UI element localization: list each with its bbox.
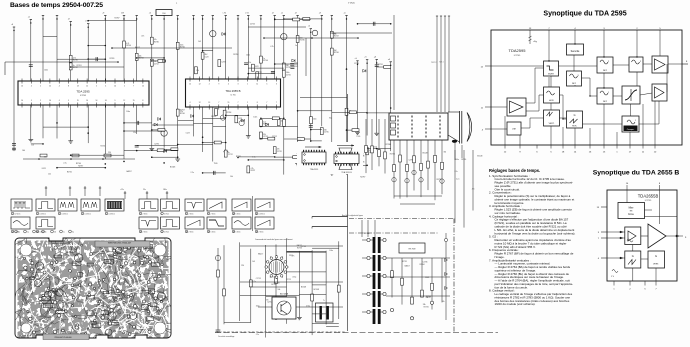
svg-text:14: 14 (95, 100, 97, 102)
svg-text:forme: forme (628, 213, 635, 216)
svg-text:0.5 V/cm: 0.5 V/cm (259, 214, 266, 216)
svg-text:Régler R 2767 (BF) de façon à: Régler R 2767 (BF) de façon à obtenir un… (495, 252, 574, 256)
svg-text:R2731: R2731 (236, 156, 241, 158)
svg-text:5 V/cm: 5 V/cm (164, 214, 170, 216)
svg-text:0.5 V/cm: 0.5 V/cm (85, 214, 92, 216)
svg-text:Réglages bases de temps.: Réglages bases de temps. (489, 168, 540, 173)
svg-text:5: 5 (266, 84, 267, 86)
svg-text:7: 7 (133, 86, 134, 88)
svg-text:2 V/cm: 2 V/cm (143, 232, 149, 234)
svg-text:13: 13 (77, 86, 79, 88)
svg-text:100n: 100n (180, 44, 184, 46)
svg-text:TDA 2595: TDA 2595 (76, 90, 90, 94)
svg-text:VERT.: VERT. (549, 123, 555, 125)
svg-text:8k2: 8k2 (334, 50, 337, 52)
svg-text:TM 53k: TM 53k (363, 233, 369, 235)
svg-text:Synoptique du TDA 2655 B: Synoptique du TDA 2655 B (593, 170, 680, 177)
svg-text:560: 560 (22, 150, 25, 152)
svg-text:VERT.: VERT. (653, 264, 659, 266)
svg-text:C2755: C2755 (354, 63, 359, 65)
svg-text:12k: 12k (133, 132, 136, 134)
svg-text:TDA2595: TDA2595 (509, 48, 527, 53)
svg-text:100n: 100n (246, 55, 250, 57)
svg-text:33k: 33k (263, 134, 266, 136)
svg-text:IC2755: IC2755 (645, 200, 652, 202)
svg-text:2.2u: 2.2u (63, 163, 66, 165)
svg-text:R2736: R2736 (154, 41, 159, 43)
svg-text:0.5 V/cm: 0.5 V/cm (109, 214, 116, 216)
svg-text:100n: 100n (256, 305, 260, 307)
svg-text:0.5 V/cm: 0.5 V/cm (40, 214, 47, 216)
svg-text:TDA2655B: TDA2655B (638, 194, 659, 199)
svg-text:BA157: BA157 (258, 253, 263, 256)
svg-text:1n: 1n (295, 45, 297, 47)
svg-text:L 94: L 94 (223, 13, 226, 15)
svg-text:DET.: DET. (603, 101, 608, 103)
svg-text:HOR.: HOR. (549, 100, 554, 102)
svg-text:C2755: C2755 (221, 62, 226, 64)
svg-text:17: 17 (208, 231, 210, 233)
svg-text:2 V/cm: 2 V/cm (164, 232, 170, 234)
svg-text:100n: 100n (44, 70, 48, 72)
svg-text:10k: 10k (139, 55, 142, 57)
svg-text:D521: D521 (425, 277, 429, 279)
svg-text:8k2: 8k2 (205, 54, 208, 56)
svg-text:15: 15 (142, 86, 144, 88)
svg-text:C2731: C2731 (154, 144, 159, 146)
svg-text:V 29(4): V 29(4) (348, 3, 355, 5)
svg-text:horizontal de l’image vers la: horizontal de l’image vers la droite ou … (495, 231, 576, 235)
svg-text:5 V/cm: 5 V/cm (236, 232, 242, 234)
svg-text:12k: 12k (196, 70, 199, 72)
svg-text:2.2u: 2.2u (456, 178, 459, 180)
svg-text:2 V/cm: 2 V/cm (189, 214, 195, 216)
svg-text:15: 15 (161, 231, 163, 233)
svg-text:L523: L523 (186, 133, 190, 135)
svg-text:1k5: 1k5 (198, 41, 201, 43)
svg-text:560: 560 (286, 65, 289, 67)
svg-text:4: 4 (31, 86, 32, 88)
svg-text:7: 7 (266, 102, 267, 104)
svg-text:C2731: C2731 (286, 74, 291, 76)
svg-text:4: 4 (228, 84, 229, 86)
svg-text:5 V/cm: 5 V/cm (211, 232, 217, 234)
svg-text:7: 7 (276, 102, 277, 104)
svg-text:470p: 470p (292, 277, 296, 279)
svg-text:T520: T520 (356, 136, 360, 138)
svg-text:C2755: C2755 (263, 136, 268, 138)
svg-text:1: 1 (247, 84, 248, 86)
svg-text:100n: 100n (253, 116, 257, 118)
svg-text:8: 8 (68, 86, 69, 88)
svg-text:TDA 2595: TDA 2595 (310, 168, 318, 171)
svg-text:Commande du transfo de lignes: Commande du transfo de lignes avec son f… (255, 238, 293, 241)
svg-text:R2731: R2731 (67, 172, 72, 174)
svg-text:C2755: C2755 (324, 132, 329, 134)
svg-text:5: 5 (31, 100, 32, 102)
svg-text:IC2705: IC2705 (514, 55, 521, 57)
svg-text:8: 8 (142, 100, 143, 102)
svg-text:R2767: R2767 (180, 110, 185, 112)
svg-text:100n: 100n (329, 250, 333, 252)
svg-text:4: 4 (105, 86, 106, 88)
svg-text:1n: 1n (73, 65, 75, 67)
svg-text:4: 4 (190, 102, 191, 104)
svg-text:100n: 100n (455, 159, 459, 161)
svg-text:R2766: R2766 (386, 144, 391, 146)
svg-text:DET.: DET. (572, 83, 577, 85)
svg-text:220: 220 (241, 265, 244, 267)
svg-text:4: 4 (59, 100, 60, 102)
svg-text:BC548: BC548 (314, 289, 319, 291)
svg-text:15: 15 (133, 100, 135, 102)
svg-text:Compar.: Compar. (627, 129, 635, 131)
svg-text:14: 14 (114, 86, 116, 88)
svg-text:R2731: R2731 (378, 64, 383, 66)
svg-text:2: 2 (209, 84, 210, 86)
svg-text:LSE: LSE (512, 129, 516, 131)
svg-text:47n: 47n (141, 35, 144, 37)
svg-text:10: 10 (233, 213, 235, 215)
svg-text:R2747: R2747 (334, 35, 339, 37)
svg-text:R2747: R2747 (251, 170, 256, 172)
svg-text:D521: D521 (42, 168, 46, 170)
svg-text:1k5: 1k5 (252, 261, 255, 263)
svg-text:8k2: 8k2 (329, 118, 332, 120)
svg-text:2.2u: 2.2u (248, 62, 251, 64)
svg-text:29504-007.25-06-660: 29504-007.25-06-660 (54, 337, 71, 339)
svg-text:Circuit de verrouillage: Circuit de verrouillage (218, 335, 234, 338)
svg-text:47n: 47n (266, 299, 269, 301)
svg-text:0.1u: 0.1u (252, 157, 255, 159)
svg-text:11: 11 (256, 213, 258, 215)
svg-text:R521: R521 (289, 255, 293, 257)
svg-text:D50: D50 (162, 13, 165, 15)
svg-text:2.2u: 2.2u (253, 281, 256, 283)
svg-text:18: 18 (233, 231, 235, 233)
svg-text:L523: L523 (373, 147, 377, 149)
svg-text:1n: 1n (263, 58, 265, 60)
svg-text:4: 4 (59, 86, 60, 88)
svg-text:2: 2 (40, 86, 41, 88)
svg-text:Mise: Mise (629, 208, 635, 210)
svg-text:13: 13 (208, 102, 210, 104)
svg-text:11: 11 (256, 84, 258, 86)
svg-text:10k: 10k (442, 301, 445, 303)
svg-text:33k: 33k (154, 61, 157, 63)
svg-text:L523: L523 (238, 118, 242, 120)
svg-text:R2767: R2767 (115, 17, 120, 19)
svg-text:1a: 1a (27, 232, 29, 234)
svg-text:R2701: R2701 (77, 65, 82, 67)
svg-text:R2747: R2747 (73, 67, 78, 69)
svg-text:10: 10 (49, 86, 51, 88)
svg-text:2: 2 (247, 102, 248, 104)
svg-text:47n: 47n (154, 39, 157, 41)
svg-text:R2764: R2764 (420, 264, 425, 266)
svg-text:12: 12 (123, 100, 125, 102)
svg-text:3: 3 (276, 84, 277, 86)
svg-text:3: 3 (238, 84, 239, 86)
svg-text:2.2u: 2.2u (454, 171, 457, 173)
svg-text:C2712: C2712 (267, 301, 272, 303)
svg-text:MUTE: MUTE (548, 74, 554, 76)
svg-text:C2712: C2712 (272, 136, 277, 138)
svg-text:BA157: BA157 (127, 170, 132, 173)
svg-text:7: 7 (238, 102, 239, 104)
svg-text:16: 16 (49, 100, 51, 102)
svg-text:5: 5 (68, 100, 69, 102)
svg-text:2 V/cm: 2 V/cm (143, 214, 149, 216)
svg-text:16: 16 (105, 100, 107, 102)
svg-text:R2764: R2764 (227, 112, 232, 114)
svg-text:12: 12 (189, 84, 191, 86)
svg-text:220: 220 (108, 152, 111, 154)
svg-text:15: 15 (77, 100, 79, 102)
svg-text:2.2u: 2.2u (256, 334, 259, 336)
svg-text:1n: 1n (281, 121, 283, 123)
svg-text:C2712: C2712 (228, 154, 233, 156)
svg-text:BA157: BA157 (135, 46, 140, 49)
svg-text:D521: D521 (294, 66, 298, 68)
svg-text:3a: 3a (72, 232, 74, 234)
svg-text:100n: 100n (286, 72, 290, 74)
svg-text:8: 8 (257, 102, 258, 104)
svg-text:14: 14 (140, 231, 142, 233)
svg-text:BC548: BC548 (170, 167, 175, 169)
svg-text:R2731: R2731 (402, 261, 407, 263)
svg-text:R2767: R2767 (78, 166, 83, 168)
svg-text:33k: 33k (44, 156, 47, 158)
svg-text:HOR.: HOR. (572, 126, 577, 128)
svg-text:100n: 100n (126, 111, 130, 113)
svg-text:15: 15 (227, 102, 229, 104)
svg-text:2 V/cm: 2 V/cm (189, 232, 195, 234)
svg-text:16: 16 (186, 231, 188, 233)
svg-text:100n: 100n (298, 140, 302, 142)
svg-text:33k: 33k (444, 151, 447, 153)
svg-text:14: 14 (86, 100, 88, 102)
svg-text:C2731: C2731 (423, 262, 428, 264)
svg-text:R2764: R2764 (76, 163, 81, 165)
svg-text:10 V/cm: 10 V/cm (15, 214, 22, 216)
svg-text:47n: 47n (472, 189, 475, 191)
svg-text:19/20 du module (voir schéma).: 19/20 du module (voir schéma). (495, 302, 536, 306)
svg-text:470p: 470p (306, 305, 310, 307)
svg-text:C2731: C2731 (277, 151, 282, 153)
svg-text:2: 2 (124, 86, 125, 88)
svg-text:100n: 100n (319, 313, 323, 315)
svg-text:BA157: BA157 (426, 296, 431, 299)
svg-text:7: 7 (218, 102, 219, 104)
svg-text:G: G (632, 254, 634, 258)
svg-text:BA157: BA157 (405, 265, 410, 268)
svg-text:12k: 12k (48, 174, 51, 176)
svg-text:10: 10 (21, 86, 23, 88)
svg-text:TH 520: TH 520 (274, 283, 280, 285)
svg-text:R2766: R2766 (211, 116, 216, 118)
svg-text:2b: 2b (54, 232, 56, 234)
svg-text:1: 1 (635, 120, 636, 122)
svg-text:180v: 180v (163, 189, 167, 191)
svg-text:9: 9 (218, 84, 219, 86)
svg-text:1c: 1c (63, 232, 65, 234)
svg-text:9: 9 (115, 100, 116, 102)
svg-text:G: G (655, 254, 657, 258)
svg-text:47n: 47n (277, 149, 280, 151)
svg-text:C2712: C2712 (154, 63, 159, 65)
svg-text:BU 508A: BU 508A (280, 293, 289, 296)
svg-text:12: 12 (86, 86, 88, 88)
svg-text:DET.: DET. (603, 70, 608, 72)
svg-text:5: 5 (96, 86, 97, 88)
svg-text:470p: 470p (332, 33, 336, 35)
svg-text:G: G (574, 114, 576, 117)
svg-text:R2747: R2747 (101, 145, 106, 147)
svg-text:2 V/cm: 2 V/cm (211, 214, 217, 216)
svg-text:1n: 1n (228, 152, 230, 154)
svg-text:+12v: +12v (120, 189, 124, 191)
svg-text:BC548: BC548 (301, 286, 306, 288)
svg-text:R2736: R2736 (73, 60, 78, 62)
svg-text:100n: 100n (294, 63, 298, 65)
svg-text:C2755: C2755 (256, 278, 261, 280)
svg-text:10k: 10k (230, 176, 233, 178)
svg-text:C2755: C2755 (250, 23, 255, 25)
svg-text:71-7.1: 71-7.1 (439, 62, 444, 64)
svg-text:R2766: R2766 (461, 159, 466, 161)
svg-text:12: 12 (12, 231, 14, 233)
svg-text:1c: 1c (36, 232, 38, 234)
svg-text:C2731: C2731 (286, 279, 291, 281)
svg-text:1c: 1c (18, 232, 20, 234)
svg-text:25v: 25v (143, 189, 146, 191)
svg-text:R2736: R2736 (300, 40, 305, 42)
svg-text:10k: 10k (278, 289, 281, 291)
svg-text:R2706: R2706 (180, 113, 185, 115)
svg-text:747-7.2: 747-7.2 (431, 62, 437, 64)
svg-text:HR 7849: HR 7849 (408, 249, 415, 251)
svg-text:100n: 100n (313, 119, 317, 121)
svg-text:TDA 2655 B: TDA 2655 B (341, 171, 352, 174)
svg-text:4.7k: 4.7k (126, 43, 129, 45)
svg-text:T520: T520 (214, 163, 218, 165)
svg-text:BC548: BC548 (423, 152, 428, 154)
svg-text:TDA 2655 B: TDA 2655 B (225, 89, 240, 93)
svg-text:4.7k: 4.7k (270, 46, 273, 48)
svg-text:Sécurité: Sécurité (571, 50, 580, 53)
svg-text:2 V/cm: 2 V/cm (259, 232, 265, 234)
svg-text:0.5 V/cm: 0.5 V/cm (62, 214, 69, 216)
svg-text:10k: 10k (31, 144, 34, 146)
svg-text:L 94: L 94 (245, 13, 248, 15)
svg-text:BC548: BC548 (477, 155, 482, 157)
svg-text:4.7k: 4.7k (251, 168, 254, 170)
svg-text:19: 19 (256, 231, 258, 233)
svg-text:33k: 33k (423, 304, 426, 306)
svg-text:R2731: R2731 (424, 307, 429, 309)
svg-text:2: 2 (40, 100, 41, 102)
svg-text:2.2u: 2.2u (259, 71, 262, 73)
svg-text:R2706: R2706 (334, 52, 339, 54)
svg-text:A 494: A 494 (93, 2, 99, 5)
svg-text:R2766: R2766 (233, 54, 238, 56)
svg-text:R2706: R2706 (263, 60, 268, 62)
svg-text:12: 12 (199, 102, 201, 104)
svg-text:C2755: C2755 (286, 67, 291, 69)
svg-text:R2701: R2701 (110, 58, 115, 60)
svg-text:14: 14 (21, 100, 23, 102)
svg-text:IC 755: IC 755 (230, 95, 235, 97)
svg-text:Synoptique du TDA 2595: Synoptique du TDA 2595 (543, 10, 626, 18)
svg-text:WESTWLUNG 29504-007: WESTWLUNG 29504-007 (108, 242, 132, 244)
svg-text:2.2u: 2.2u (191, 172, 194, 174)
svg-text:560: 560 (324, 130, 327, 132)
svg-text:Bases de temps 29504-007.25: Bases de temps 29504-007.25 (10, 2, 103, 9)
svg-text:12: 12 (199, 84, 201, 86)
svg-text:R2767: R2767 (360, 177, 365, 179)
svg-text:L523: L523 (205, 56, 209, 58)
svg-text:R2706: R2706 (126, 45, 131, 47)
svg-text:5 V/cm: 5 V/cm (236, 214, 242, 216)
svg-text:IC2705: IC2705 (80, 95, 86, 97)
svg-text:R2736: R2736 (297, 248, 302, 250)
